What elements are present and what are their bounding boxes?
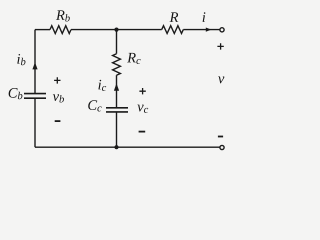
wire bottom xyxy=(35,146,220,148)
plus sign vb xyxy=(54,77,60,83)
current arrow i xyxy=(206,28,212,32)
minus sign vc xyxy=(139,131,146,133)
wire left upper xyxy=(34,30,36,93)
wire middle lower xyxy=(116,112,118,147)
label v xyxy=(218,77,224,84)
wire top-left segment xyxy=(35,29,50,31)
label Rc xyxy=(127,53,140,64)
wire left lower xyxy=(34,98,36,147)
node junction top xyxy=(114,28,118,32)
label Cb xyxy=(9,88,23,99)
node junction bottom xyxy=(114,145,118,149)
current arrow ib xyxy=(32,62,37,69)
label ic xyxy=(98,80,106,91)
terminal circle bottom-right xyxy=(220,145,224,149)
label Rb xyxy=(56,10,70,21)
label i xyxy=(203,12,206,22)
label ib xyxy=(17,54,25,65)
capacitor Cc xyxy=(106,108,128,112)
plus sign v xyxy=(217,43,223,49)
minus sign vb xyxy=(55,120,61,122)
resistor Rc xyxy=(113,54,121,76)
capacitor Cb xyxy=(24,94,46,99)
label vc xyxy=(137,105,148,113)
label R xyxy=(170,12,179,21)
minus sign v xyxy=(218,136,223,138)
current arrow ic xyxy=(114,83,119,91)
label Cc xyxy=(88,100,101,111)
plus sign vc xyxy=(139,88,145,94)
wire top-middle segment xyxy=(71,29,162,31)
wire top-right segment xyxy=(183,29,220,31)
resistor R xyxy=(162,26,184,34)
terminal circle top-right xyxy=(220,28,224,32)
label vb xyxy=(53,94,64,102)
wire middle upper xyxy=(116,30,118,54)
resistor Rb xyxy=(50,26,71,34)
wire middle mid xyxy=(116,75,118,107)
